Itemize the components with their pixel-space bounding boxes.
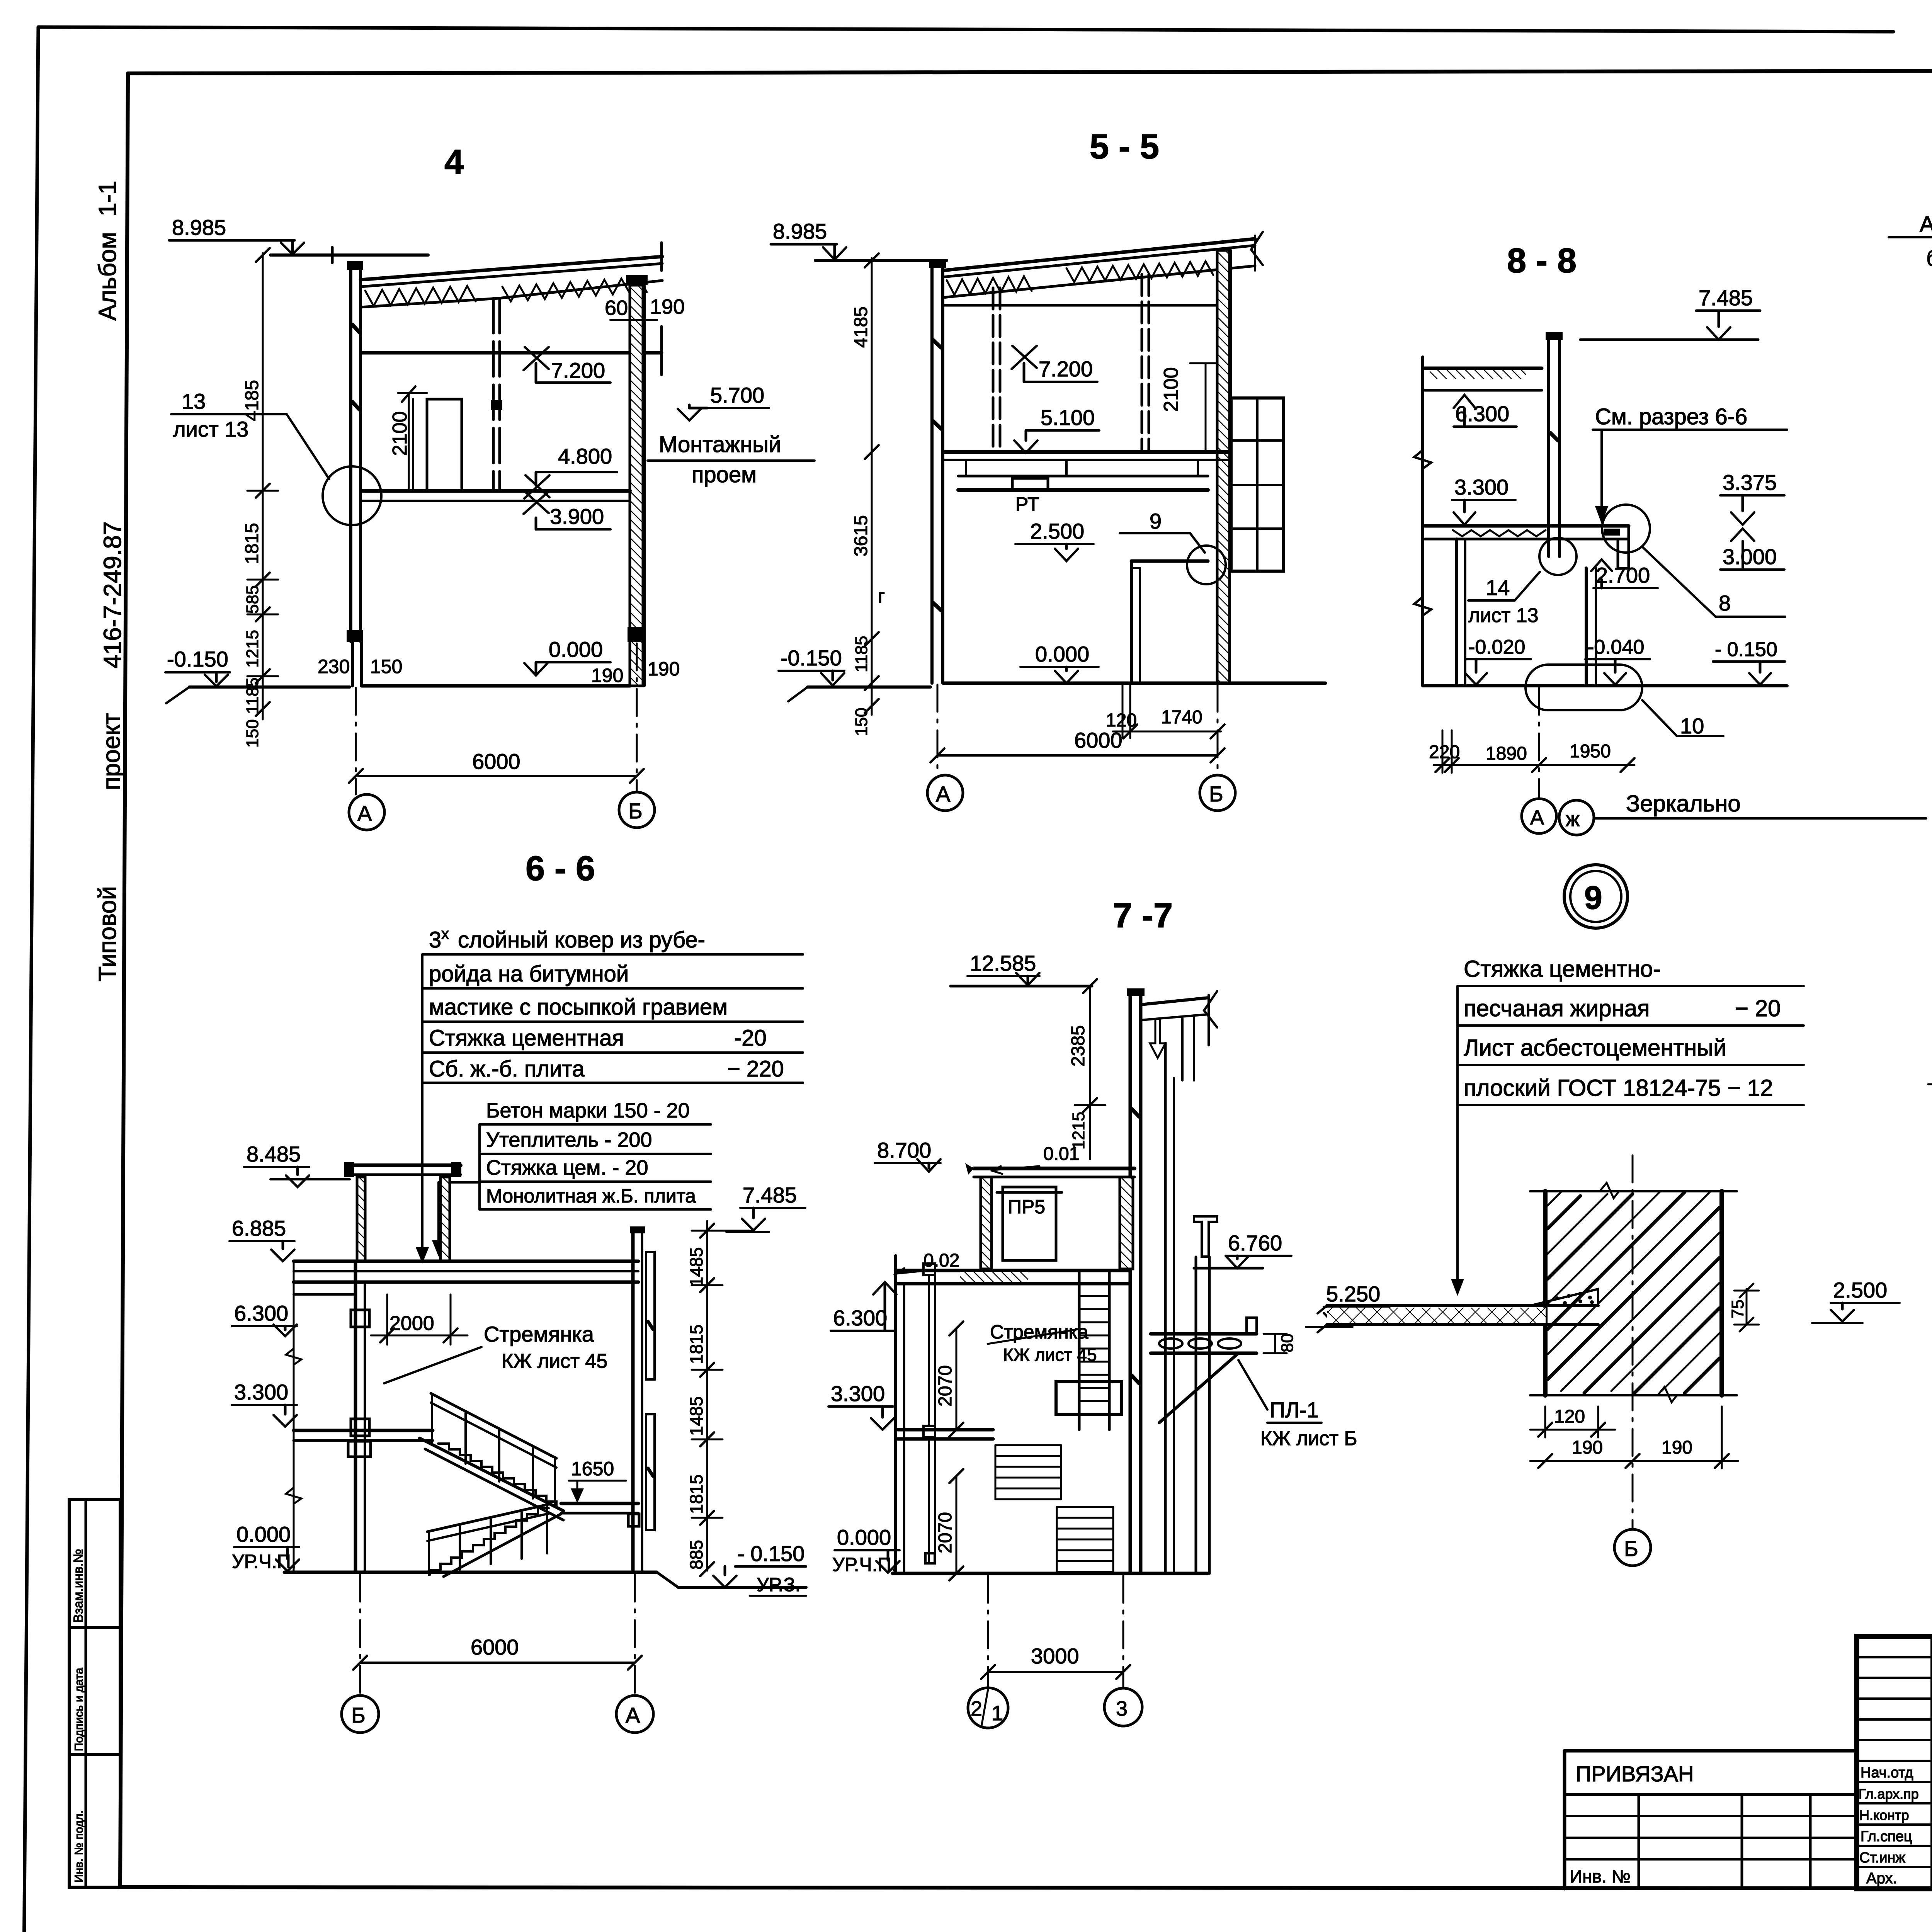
- left wall column: [930, 263, 934, 683]
- svg-text:Альбом: Альбом: [94, 232, 121, 321]
- svg-text:220: 220: [1429, 742, 1460, 762]
- svg-text:2070: 2070: [935, 1512, 956, 1553]
- svg-text:2070: 2070: [935, 1365, 956, 1406]
- svg-text:190: 190: [648, 658, 680, 680]
- signature table columns: [1930, 1636, 1932, 1889]
- axis lines: [937, 685, 939, 775]
- right annex grid structure: [1231, 398, 1284, 571]
- svg-text:Стяжка цементная: Стяжка цементная: [429, 1026, 624, 1051]
- RT hoist box: [1012, 478, 1048, 490]
- svg-text:0.000: 0.000: [1035, 642, 1089, 666]
- dim 2070 upper: [956, 1328, 957, 1430]
- svg-text:190: 190: [591, 665, 623, 686]
- svg-text:1-1: 1-1: [94, 181, 121, 217]
- dim 120: [1544, 1406, 1546, 1437]
- right wall hatched: [1217, 250, 1230, 683]
- svg-text:1185: 1185: [243, 677, 262, 714]
- oval detail 10 marker: [1526, 665, 1642, 710]
- svg-text:7.485: 7.485: [743, 1183, 797, 1207]
- wall column axis A: [349, 264, 352, 641]
- top dim line at 8.985: [270, 253, 428, 257]
- axis bubble B: [619, 792, 655, 828]
- dim 6000 bottom: [360, 1662, 635, 1664]
- svg-text:Монолитная ж.Б. плита: Монолитная ж.Б. плита: [486, 1185, 696, 1207]
- svg-text:Стремянка: Стремянка: [484, 1322, 594, 1346]
- eave black cap right: [626, 275, 648, 285]
- dim 2385 vertical: [1089, 986, 1091, 1159]
- dim 75: [1746, 1289, 1748, 1325]
- svg-text:2: 2: [971, 1697, 982, 1720]
- svg-text:4185: 4185: [242, 380, 262, 421]
- mid landing: [561, 1502, 638, 1505]
- svg-text:1815: 1815: [686, 1325, 706, 1364]
- ground line: [893, 1572, 1207, 1575]
- svg-text:- 0.150: - 0.150: [1715, 638, 1777, 661]
- svg-text:1815: 1815: [242, 523, 262, 564]
- svg-text:5.700: 5.700: [710, 383, 764, 407]
- axis bubble Zh: [1559, 800, 1594, 835]
- svg-text:10: 10: [1680, 714, 1704, 738]
- left margin stamp box 3: [69, 1754, 120, 1887]
- upper flight guardrail: [431, 1393, 556, 1458]
- floor slab left: [1327, 1304, 1598, 1307]
- svg-text:2385: 2385: [1068, 1025, 1088, 1066]
- svg-text:ПЛ-1: ПЛ-1: [1270, 1398, 1319, 1422]
- svg-text:585: 585: [243, 585, 262, 614]
- svg-text:8: 8: [1719, 591, 1731, 615]
- svg-text:лист 13: лист 13: [173, 417, 248, 441]
- svg-text:Антисептированный: Антисептированный: [1920, 212, 1932, 237]
- svg-text:1215: 1215: [243, 630, 262, 668]
- svg-text:14: 14: [1486, 575, 1510, 600]
- svg-text:7.200: 7.200: [1039, 357, 1093, 381]
- inner drawing frame: [120, 73, 128, 1887]
- svg-text:3.375: 3.375: [1723, 470, 1777, 495]
- svg-text:КЖ лист Б: КЖ лист Б: [1260, 1427, 1357, 1450]
- svg-text:Инв. №: Инв. №: [1570, 1866, 1631, 1886]
- svg-text:7.200: 7.200: [551, 358, 605, 383]
- upper stair flight stringer: [420, 1438, 563, 1511]
- hatched column: [1543, 1191, 1548, 1395]
- lower stair flight steps: [430, 1508, 549, 1575]
- svg-text:2.700: 2.700: [1596, 563, 1650, 587]
- svg-text:416-7-249.87: 416-7-249.87: [99, 521, 126, 668]
- dim 6000: [937, 754, 1218, 757]
- dim 80 platform: [1274, 1334, 1276, 1353]
- svg-text:Ст.инж: Ст.инж: [1859, 1850, 1905, 1866]
- svg-text:5.250: 5.250: [1326, 1282, 1380, 1306]
- svg-text:3615: 3615: [851, 515, 871, 556]
- axis bubble A: [616, 1696, 653, 1733]
- svg-text:6000: 6000: [471, 1635, 519, 1659]
- svg-text:3.900: 3.900: [550, 504, 604, 529]
- svg-text:КЖ лист 45: КЖ лист 45: [1003, 1345, 1097, 1365]
- left dimension chain: [262, 253, 264, 719]
- svg-text:ПР5: ПР5: [1008, 1196, 1045, 1218]
- svg-text:Б: Б: [628, 799, 643, 823]
- left margin stamp box 1: [69, 1499, 120, 1628]
- svg-text:3.300: 3.300: [831, 1381, 885, 1406]
- crane beam under slab: [958, 475, 1208, 478]
- upper floor slab: [896, 1269, 1128, 1272]
- svg-text:2000: 2000: [389, 1312, 434, 1335]
- platform PL-1: [1151, 1332, 1257, 1336]
- svg-text:- 0.150: - 0.150: [737, 1541, 804, 1566]
- lower flight guardrail: [427, 1504, 549, 1532]
- svg-text:6.885: 6.885: [232, 1216, 286, 1240]
- title block frame: [1857, 1636, 1932, 1889]
- interior truss columns: [992, 288, 995, 452]
- mid slab left landing: [294, 1429, 433, 1432]
- svg-text:3.000: 3.000: [1723, 544, 1777, 569]
- svg-text:2100: 2100: [1160, 367, 1182, 412]
- right dim chain: [706, 1221, 708, 1571]
- svg-text:Утеплитель - 200: Утеплитель - 200: [486, 1128, 652, 1151]
- mortar wedge: [1530, 1289, 1598, 1306]
- svg-text:0.000: 0.000: [549, 637, 603, 662]
- interior post at left of penthouse floor: [923, 1264, 935, 1275]
- svg-text:5.100: 5.100: [1041, 405, 1095, 430]
- svg-text:4: 4: [444, 143, 464, 182]
- svg-text:8 - 8: 8 - 8: [1507, 241, 1577, 280]
- detail balloon 9: [1564, 865, 1628, 928]
- svg-text:Типовой: Типовой: [94, 886, 121, 981]
- door opening: [427, 399, 462, 491]
- roof beams top right: [1141, 998, 1209, 1005]
- roof slab sloped: [361, 257, 662, 280]
- svg-text:слойный ковер из рубе-: слойный ковер из рубе-: [458, 927, 705, 952]
- left tall wall: [1421, 357, 1424, 686]
- hatched stair block upper: [995, 1445, 1061, 1499]
- svg-text:Взам.инв.№: Взам.инв.№: [71, 1549, 86, 1623]
- tall column: [1129, 992, 1132, 1573]
- svg-text:Б: Б: [351, 1703, 366, 1727]
- svg-text:60: 60: [605, 296, 628, 320]
- svg-text:9: 9: [1150, 509, 1162, 533]
- svg-text:2100: 2100: [389, 411, 411, 456]
- svg-text:Гл.спец: Гл.спец: [1861, 1828, 1912, 1845]
- axis lines to bubbles: [355, 688, 357, 794]
- svg-text:1485: 1485: [686, 1396, 706, 1436]
- svg-text:1740: 1740: [1161, 707, 1202, 728]
- svg-text:Б: Б: [1209, 782, 1223, 806]
- svg-text:-0.020: -0.020: [1468, 636, 1525, 658]
- svg-text:150: 150: [852, 708, 871, 736]
- svg-text:2.500: 2.500: [1030, 519, 1084, 543]
- detail circle 8: [1602, 505, 1650, 553]
- svg-text:1815: 1815: [686, 1475, 706, 1514]
- svg-text:Нач.отд: Нач.отд: [1861, 1765, 1913, 1781]
- svg-text:885: 885: [686, 1540, 706, 1570]
- mid slab: [1425, 524, 1629, 528]
- svg-text:г: г: [878, 585, 885, 607]
- svg-text:150: 150: [243, 719, 262, 748]
- penthouse roof slab: [347, 1163, 461, 1167]
- svg-text:Гл.арх.пр: Гл.арх.пр: [1859, 1786, 1919, 1802]
- axis bubble 2/1: [968, 1688, 1008, 1728]
- axis bubble B: [1200, 775, 1235, 811]
- svg-text:190: 190: [650, 295, 685, 318]
- mid truss column: [492, 298, 495, 491]
- svg-text:-0.150: -0.150: [781, 646, 842, 670]
- svg-text:Арх.: Арх.: [1866, 1870, 1897, 1887]
- ceiling line 7.200: [362, 351, 662, 355]
- upper floor slab 5.100: [944, 450, 1230, 454]
- svg-text:1: 1: [992, 1702, 1003, 1725]
- svg-text:Сб. ж.-б. плита: Сб. ж.-б. плита: [429, 1056, 585, 1082]
- svg-text:РТ: РТ: [1015, 493, 1039, 515]
- svg-text:-20: -20: [734, 1026, 767, 1051]
- svg-text:Инв. № подл.: Инв. № подл.: [73, 1810, 85, 1883]
- svg-text:Бетон марки 150 - 20: Бетон марки 150 - 20: [486, 1099, 690, 1122]
- small circle 14: [1539, 538, 1577, 575]
- svg-text:Б: Б: [1624, 1536, 1638, 1561]
- svg-text:3000: 3000: [1031, 1644, 1079, 1668]
- main roof slab: [294, 1260, 638, 1263]
- privyazan table: [1565, 1749, 1857, 1753]
- svg-text:75: 75: [1728, 1299, 1747, 1318]
- svg-text:3.300: 3.300: [234, 1380, 288, 1404]
- svg-text:9: 9: [1584, 879, 1602, 916]
- right wall column axis B hatched: [630, 285, 643, 686]
- svg-text:8.985: 8.985: [773, 219, 827, 243]
- svg-text:мастике с посыпкой гравием: мастике с посыпкой гравием: [429, 995, 728, 1020]
- svg-text:4185: 4185: [851, 306, 871, 348]
- right column with T top: [1194, 1216, 1217, 1257]
- ceiling line under roof: [944, 304, 1217, 307]
- svg-text:Стяжка цем. - 20: Стяжка цем. - 20: [486, 1156, 648, 1179]
- svg-text:− 220: − 220: [727, 1056, 784, 1082]
- svg-text:4.800: 4.800: [558, 444, 612, 468]
- svg-text:-0.040: -0.040: [1587, 636, 1644, 658]
- svg-text:230: 230: [318, 656, 350, 677]
- axis line + bubble B: [1632, 1155, 1634, 1529]
- svg-text:песчаная жирная: песчаная жирная: [1464, 995, 1650, 1021]
- svg-text:А: А: [936, 782, 951, 806]
- svg-text:проект: проект: [97, 713, 125, 790]
- svg-text:190: 190: [1662, 1437, 1692, 1458]
- svg-text:-0.150: -0.150: [167, 647, 228, 671]
- svg-text:0.000: 0.000: [837, 1525, 891, 1549]
- svg-text:Монтажный: Монтажный: [659, 432, 781, 457]
- svg-text:Стяжка цементно-: Стяжка цементно-: [1464, 956, 1661, 982]
- svg-text:3: 3: [429, 927, 441, 952]
- roof web hatch near left support: [365, 286, 476, 306]
- svg-text:6.300: 6.300: [234, 1301, 288, 1325]
- central column: [1547, 335, 1550, 556]
- svg-text:3.300: 3.300: [1454, 475, 1509, 499]
- svg-text:1485: 1485: [686, 1247, 706, 1287]
- axis line: [1538, 688, 1540, 798]
- svg-text:80: 80: [1278, 1333, 1297, 1352]
- svg-text:8.485: 8.485: [247, 1142, 301, 1166]
- svg-text:− 20: − 20: [1735, 995, 1781, 1021]
- svg-text:ройда на битумной: ройда на битумной: [429, 961, 629, 986]
- lower storey walls: [347, 630, 363, 642]
- left wall: [894, 1256, 897, 1573]
- svg-text:5 - 5: 5 - 5: [1090, 128, 1159, 166]
- svg-text:13: 13: [182, 389, 206, 413]
- hatched stair block lower: [1057, 1507, 1113, 1572]
- mid landing box: [1056, 1382, 1122, 1414]
- svg-text:Лист асбестоцементный: Лист асбестоцементный: [1464, 1035, 1726, 1061]
- dim 3000: [988, 1671, 1123, 1673]
- interior unit PR5: [1003, 1187, 1056, 1260]
- mid floor slab: [362, 489, 630, 493]
- dim 2070 lower: [956, 1476, 957, 1573]
- svg-text:6000: 6000: [1074, 728, 1122, 752]
- svg-text:0.000: 0.000: [236, 1522, 291, 1546]
- axis bubble 3: [1104, 1688, 1142, 1726]
- roof sloped: [943, 239, 1255, 270]
- svg-text:А: А: [1530, 806, 1544, 829]
- dim 6000: [356, 775, 637, 777]
- svg-text:0.01: 0.01: [1043, 1144, 1079, 1164]
- svg-text:ПРИВЯЗАН: ПРИВЯЗАН: [1576, 1762, 1694, 1786]
- top slab band: [1425, 367, 1542, 370]
- svg-text:Подпись и дата: Подпись и дата: [73, 1668, 85, 1751]
- penthouse walls hatched: [981, 1177, 992, 1269]
- svg-text:3: 3: [1116, 1697, 1128, 1720]
- upper flight steps: [438, 1444, 556, 1507]
- lower walls: [1455, 539, 1458, 686]
- roof overhang right break: [1251, 232, 1263, 270]
- floor line: [944, 682, 1325, 685]
- svg-text:8.985: 8.985: [172, 215, 226, 240]
- signature table rows: [1857, 1656, 1932, 1658]
- dim 190 190: [1530, 1460, 1738, 1462]
- svg-text:0.02: 0.02: [923, 1250, 959, 1271]
- axis bubble B: [342, 1696, 379, 1733]
- svg-text:Н.контр: Н.контр: [1859, 1807, 1909, 1823]
- svg-text:проем: проем: [692, 462, 757, 487]
- svg-text:ж: ж: [1566, 808, 1580, 831]
- svg-text:6 - 6: 6 - 6: [526, 849, 595, 888]
- svg-text:Зеркально: Зеркально: [1626, 791, 1741, 816]
- detail circle at wall joint: [323, 466, 381, 525]
- left break line dim: [293, 1261, 295, 1572]
- mid slab 3.300: [896, 1428, 993, 1432]
- svg-text:7.485: 7.485: [1699, 286, 1753, 310]
- svg-text:6000: 6000: [472, 749, 520, 774]
- interior ledge wall: [1131, 560, 1208, 563]
- vertical ladder upper: [1078, 1272, 1081, 1430]
- svg-text:плоский ГОСТ 18124-75 − 12: плоский ГОСТ 18124-75 − 12: [1464, 1075, 1773, 1101]
- left wall B: [354, 1261, 357, 1572]
- svg-text:1185: 1185: [852, 636, 871, 672]
- penthouse walls: [357, 1177, 365, 1261]
- svg-text:2.500: 2.500: [1833, 1278, 1887, 1302]
- svg-text:150: 150: [370, 656, 402, 677]
- left dim chain: [871, 258, 873, 715]
- svg-text:1650: 1650: [571, 1458, 614, 1480]
- svg-text:А: А: [626, 1703, 640, 1727]
- left margin stamp box 2: [69, 1628, 120, 1754]
- svg-text:8.700: 8.700: [877, 1138, 931, 1162]
- ground line: [1423, 684, 1787, 687]
- svg-text:брусок 125: брусок 125: [1926, 246, 1932, 271]
- svg-text:См. разрез 6-6: См. разрез 6-6: [1595, 404, 1747, 429]
- sheet outer border: [24, 27, 38, 1932]
- svg-text:1950: 1950: [1570, 741, 1611, 762]
- axis bubble A: [1522, 799, 1556, 833]
- svg-text:х: х: [441, 925, 449, 942]
- svg-text:УР.З.: УР.З.: [757, 1574, 801, 1595]
- axis bubble A: [349, 794, 384, 830]
- svg-text:Стремянка: Стремянка: [990, 1321, 1088, 1343]
- ground floor line: [284, 1571, 657, 1574]
- svg-text:190: 190: [1572, 1437, 1603, 1458]
- svg-text:лист 13: лист 13: [1468, 604, 1539, 627]
- bottom dims 220 1890 1950: [1442, 730, 1444, 773]
- svg-text:12.585: 12.585: [970, 951, 1036, 975]
- svg-text:А: А: [357, 801, 372, 825]
- right wall of stair shaft: [631, 1229, 635, 1572]
- svg-text:7 -7: 7 -7: [1113, 896, 1173, 935]
- svg-text:6.760: 6.760: [1228, 1231, 1282, 1255]
- axis bubble A: [927, 775, 963, 811]
- svg-text:6.300: 6.300: [833, 1306, 887, 1330]
- svg-text:120: 120: [1554, 1406, 1585, 1427]
- svg-text:КЖ лист 45: КЖ лист 45: [502, 1350, 607, 1372]
- svg-text:1890: 1890: [1486, 743, 1527, 764]
- penthouse roof slab: [974, 1167, 1134, 1170]
